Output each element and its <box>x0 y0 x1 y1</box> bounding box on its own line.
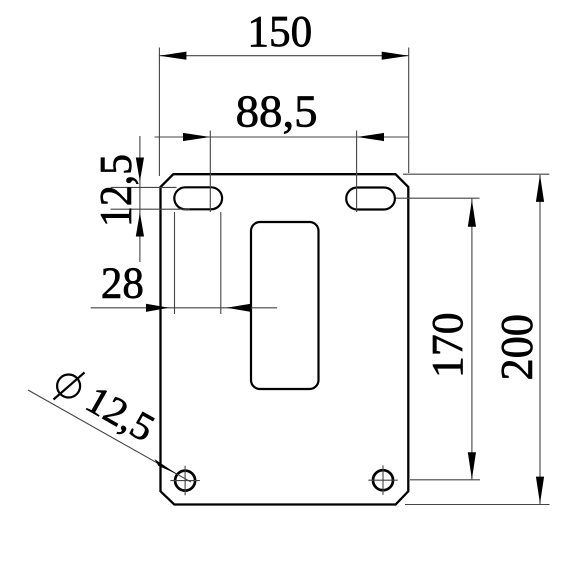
svg-text:12,5: 12,5 <box>90 154 141 227</box>
hole bottom-left <box>175 471 195 491</box>
plate outline <box>161 174 409 504</box>
crosshair bottom-left hole <box>170 466 199 495</box>
dim 150 extension left <box>158 48 160 177</box>
dim 28 extension left <box>174 212 176 314</box>
dim 150 arrow left <box>159 52 186 60</box>
slot left <box>174 187 222 209</box>
dim 88,5 line <box>155 136 409 138</box>
dim 200 arrow down <box>536 477 544 504</box>
dim 170 arrow down <box>468 452 476 479</box>
svg-text:28: 28 <box>101 259 144 308</box>
diameter symbol slash <box>54 373 85 400</box>
dim 28 arrow left-pointing <box>226 304 251 312</box>
svg-text:12,5: 12,5 <box>79 378 162 450</box>
dim 28 line <box>91 307 277 309</box>
svg-text:150: 150 <box>247 7 312 56</box>
slot right <box>346 188 395 210</box>
dim 12,5 arrow up <box>136 213 144 237</box>
dim 170 extension top <box>396 197 480 199</box>
leader tail inside hole <box>177 474 191 482</box>
diameter symbol circle <box>57 375 80 398</box>
svg-text:88,5: 88,5 <box>236 86 318 137</box>
dim 28 extension right <box>220 212 222 314</box>
svg-text:200: 200 <box>491 314 542 381</box>
dim 88,5 arrow right <box>357 133 384 141</box>
dim 170 line vertical <box>471 198 473 480</box>
dim 200 arrow up <box>536 175 544 202</box>
dim 150 extension right <box>408 48 410 174</box>
dim 88,5 arrow left <box>183 133 210 141</box>
dim 170 extension bottom <box>410 479 480 481</box>
dim 88,5 extension left <box>209 131 211 213</box>
dim 170 arrow up <box>468 200 476 227</box>
dim 200 extension bottom <box>405 504 550 506</box>
hole bottom-right <box>373 470 393 490</box>
crosshair bottom-right hole <box>368 465 397 494</box>
dim 12,5 line vertical <box>139 136 141 262</box>
dim 88,5 extension right <box>356 131 358 213</box>
dim 12,5 extension bottom <box>111 208 190 210</box>
dim 150 arrow right <box>382 52 409 60</box>
dim 200 line vertical <box>539 175 541 504</box>
dim 200 extension top <box>403 173 549 175</box>
dim 12,5 arrow down <box>136 158 144 182</box>
dim 150 line <box>159 55 408 57</box>
leader line diameter callout <box>28 390 177 474</box>
dim 28 arrow right-pointing <box>146 304 169 312</box>
svg-text:170: 170 <box>423 312 472 378</box>
central cutout <box>251 222 319 389</box>
dim 12,5 extension top <box>111 186 177 188</box>
leader arrowhead <box>154 459 177 474</box>
